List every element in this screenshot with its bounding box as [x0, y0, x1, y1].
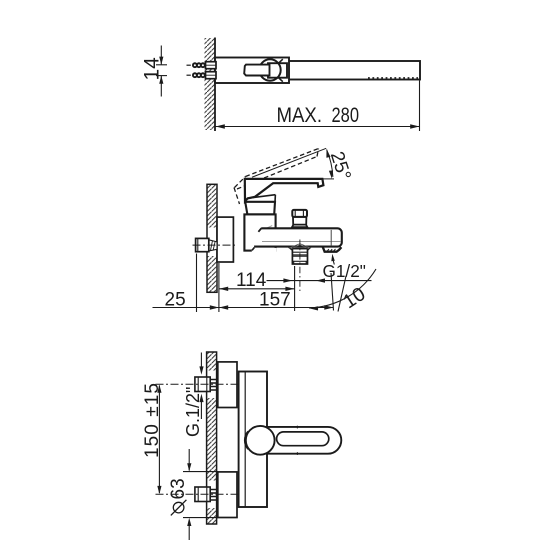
svg-text:157: 157 [259, 290, 291, 311]
svg-text:MAX.: MAX. [277, 104, 323, 127]
svg-text:150 ±15: 150 ±15 [142, 383, 163, 458]
svg-text:25: 25 [165, 290, 186, 311]
svg-text:114: 114 [236, 270, 267, 291]
svg-text:G1/2": G1/2" [323, 261, 366, 281]
svg-text:G.1/2": G.1/2" [183, 387, 203, 437]
svg-text:280: 280 [332, 104, 360, 127]
svg-text:14: 14 [141, 57, 164, 81]
svg-text:63: 63 [168, 478, 189, 499]
